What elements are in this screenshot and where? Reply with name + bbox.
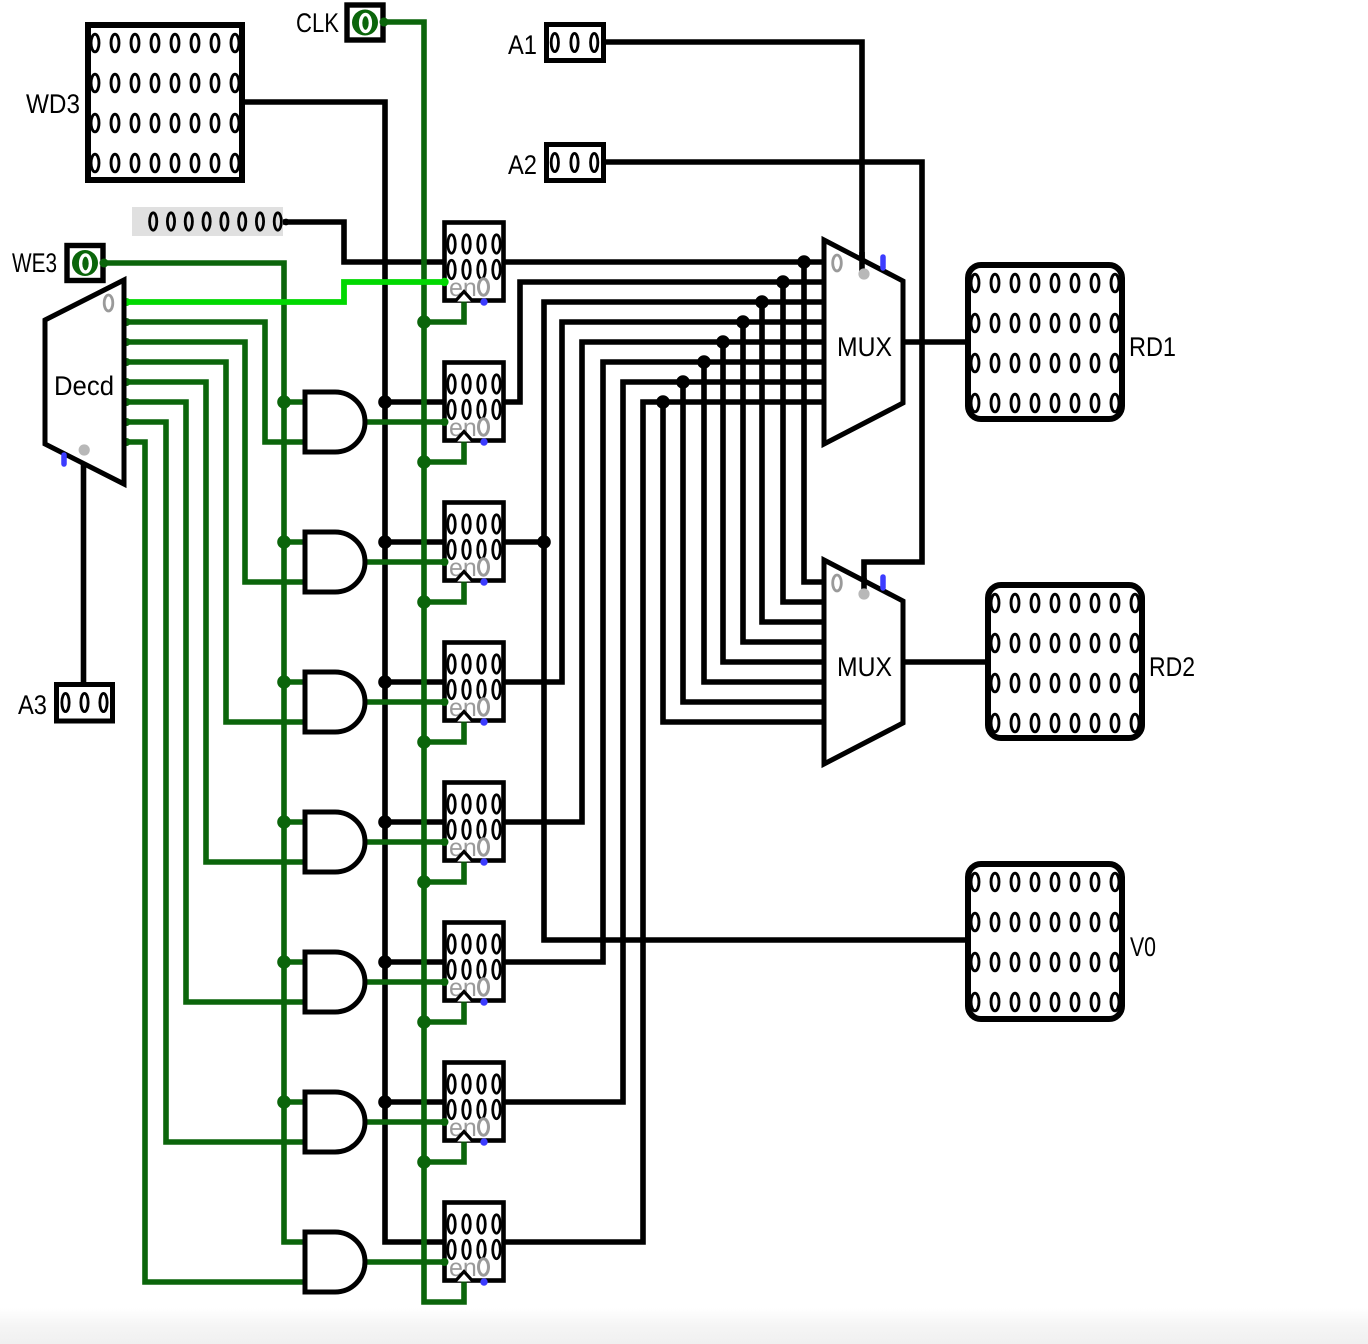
junction MUX row 7 branch: [656, 395, 670, 409]
wire clock branch register R5: [424, 1000, 464, 1022]
wire WE3 to gate G5 input: [284, 959, 305, 965]
junction CLK branch R1: [417, 455, 431, 469]
wire MUX1 out to RD1: [903, 339, 965, 345]
wire D input register R4: [385, 819, 445, 825]
wire WE3 to gate G6 input: [284, 1099, 305, 1105]
junction MUX row 0 branch: [797, 255, 811, 269]
R0 enable pin (high): [440, 278, 448, 286]
enable pin dots registers R1-R7: [441, 418, 449, 426]
wire branch to MUX2 in6: [683, 382, 825, 702]
wire gate G4 out to R4 enable: [364, 839, 446, 845]
decoder U1 Decd: [45, 280, 124, 484]
wire gate G2 out to R2 enable: [364, 559, 446, 565]
input pin CLK: [347, 5, 389, 40]
wire R0 Q to MUX1 in0: [505, 259, 825, 265]
input pin A1: [547, 25, 604, 61]
junction MUX row 4 branch: [716, 335, 730, 349]
junction CLK branch R6: [417, 1155, 431, 1169]
wire WE3 bus: [105, 263, 305, 1242]
wire gate G3 out to R3 enable: [364, 699, 446, 705]
input pin A2: [547, 145, 604, 181]
wire MUX2 out to RD2: [903, 659, 985, 665]
wire D input register R1: [385, 399, 445, 405]
wire branch to MUX2 in3: [743, 322, 825, 642]
wire gate G5 out to R5 enable: [364, 979, 446, 985]
junction R2 Q / V0 tap: [537, 535, 551, 549]
wire R5 Q to MUX1 in5: [505, 362, 825, 962]
wire decoder out0 to R0 enable (high): [124, 282, 446, 302]
junction CLK branch R4: [417, 875, 431, 889]
wire WE3 to gate G4 input: [284, 819, 305, 825]
wire branch to MUX2 in7: [663, 402, 825, 722]
AND gate G5: [305, 952, 365, 1012]
junction WE3 branch gate G5: [277, 955, 291, 969]
wire branch to MUX2 in2: [762, 302, 825, 622]
wire gate G1 out to R1 enable: [364, 419, 446, 425]
wire branch to MUX2 in0: [804, 262, 825, 582]
junction MUX row 2 branch: [755, 295, 769, 309]
AND gate G1: [305, 392, 365, 452]
svg-text:A1: A1: [508, 30, 537, 60]
register R1: [445, 363, 504, 446]
svg-text:WD3: WD3: [26, 89, 80, 119]
svg-text:RD1: RD1: [1129, 332, 1176, 362]
junction MUX row 6 branch: [676, 375, 690, 389]
svg-text:A2: A2: [508, 150, 537, 180]
AND gate G7: [305, 1232, 365, 1292]
wire clock branch register R3: [424, 720, 464, 742]
multiplexer MUX1: [824, 240, 903, 444]
wire decoder out7 to gate G7: [124, 442, 305, 1282]
wire WE3 to gate G1 input: [284, 399, 305, 405]
wire D input register R5: [385, 959, 445, 965]
pin dot label wire: [283, 219, 290, 226]
wire decoder out5 to gate G5: [124, 402, 305, 1002]
svg-text:RD2: RD2: [1149, 652, 1195, 682]
junction MUX row 5 branch: [697, 355, 711, 369]
wire clock branch register R0: [424, 300, 464, 322]
svg-text:MUX: MUX: [837, 652, 892, 682]
wire decoder out3 to gate G3: [124, 362, 305, 722]
wire label to R0 D input: [283, 222, 445, 262]
AND gate G3: [305, 672, 365, 732]
input pin WD3: [88, 25, 242, 180]
wire branch to MUX2 in1: [783, 282, 825, 602]
wire R3 Q to MUX1 in3: [505, 322, 825, 682]
register R5: [445, 923, 504, 1006]
wire D input register R2: [385, 539, 445, 545]
junction WD3 bus / R3 D: [378, 675, 392, 689]
register R3: [445, 643, 504, 726]
decoder output pin dots: [123, 298, 131, 306]
output pin RD2: [988, 585, 1142, 738]
junction CLK branch R3: [417, 735, 431, 749]
register R4: [445, 783, 504, 866]
junction MUX row 1 branch: [776, 275, 790, 289]
wire A3 to decoder select: [81, 459, 87, 683]
junction CLK branch R2: [417, 595, 431, 609]
value label 00000000: [132, 207, 283, 236]
register R6: [445, 1063, 504, 1146]
output pin RD1: [968, 265, 1122, 419]
wire R1 Q to MUX1 in1: [505, 282, 825, 402]
junction CLK branch R5: [417, 1015, 431, 1029]
svg-text:WE3: WE3: [12, 248, 57, 278]
wire R4 Q to MUX1 in4: [505, 342, 825, 822]
register R7: [445, 1203, 504, 1286]
wire R7 Q to MUX1 in7: [505, 402, 825, 1242]
wire WD3 bus: [245, 102, 445, 1242]
wire R2 Q to V0 display: [544, 542, 965, 940]
wire decoder out4 to gate G4: [124, 382, 305, 862]
wire decoder out6 to gate G6: [124, 422, 305, 1142]
wire gate G7 out to R7 enable: [364, 1259, 446, 1265]
junction WE3 branch gate G1: [277, 395, 291, 409]
wire D input register R3: [385, 679, 445, 685]
junction WE3 branch gate G4: [277, 815, 291, 829]
junction WE3 branch gate G6: [277, 1095, 291, 1109]
wire branch to MUX2 in5: [704, 362, 825, 682]
wire decoder out2 to gate G2: [124, 342, 305, 582]
register R0: [445, 223, 504, 306]
junction WD3 bus / R6 D: [378, 1095, 392, 1109]
svg-text:A3: A3: [18, 690, 47, 720]
wire clock branch register R6: [424, 1140, 464, 1162]
wire clock branch register R1: [424, 440, 464, 462]
AND gate G2: [305, 532, 365, 592]
svg-text:V0: V0: [1130, 932, 1156, 962]
input pin A3: [57, 685, 113, 722]
wire clock branch register R2: [424, 580, 464, 602]
wire D input register R6: [385, 1099, 445, 1105]
wire R2 Q to MUX1 in2: [505, 302, 825, 542]
wire R6 Q to MUX1 in6: [505, 382, 825, 1102]
junction WD3 bus / R1 D: [378, 395, 392, 409]
AND gate G6: [305, 1092, 365, 1152]
junction WD3 bus / R2 D: [378, 535, 392, 549]
junction WE3 branch gate G3: [277, 675, 291, 689]
wire WE3 to gate G3 input: [284, 679, 305, 685]
wire WE3 to gate G2 input: [284, 539, 305, 545]
wire A2 to MUX2 select: [605, 162, 922, 581]
wire clock branch register R4: [424, 860, 464, 882]
wire decoder out1 to gate G1: [124, 322, 305, 442]
svg-text:CLK: CLK: [296, 8, 339, 38]
junction WD3 bus / R5 D: [378, 955, 392, 969]
wire CLK bus: [385, 22, 464, 1302]
input pin WE3: [67, 246, 109, 281]
svg-text:MUX: MUX: [837, 332, 892, 362]
svg-text:Decd: Decd: [54, 371, 114, 401]
wire branch to MUX2 in4: [723, 342, 825, 662]
AND gate G4: [305, 812, 365, 872]
multiplexer MUX2: [824, 560, 903, 764]
output pin V0: [968, 864, 1122, 1019]
junction MUX row 3 branch: [736, 315, 750, 329]
register R2: [445, 503, 504, 586]
junction WE3 branch gate G2: [277, 535, 291, 549]
junction WD3 bus / R4 D: [378, 815, 392, 829]
wire gate G6 out to R6 enable: [364, 1119, 446, 1125]
wire A1 to MUX1 select: [605, 42, 862, 272]
junction CLK branch R0: [417, 315, 431, 329]
